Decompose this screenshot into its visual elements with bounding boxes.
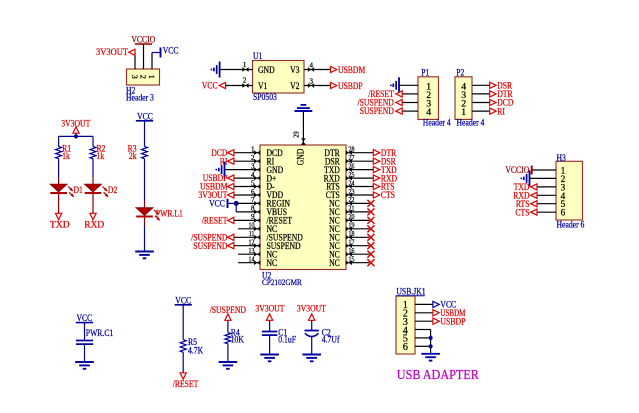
svg-text:RI: RI <box>497 106 505 116</box>
svg-text:4: 4 <box>426 107 431 118</box>
svg-text:10K: 10K <box>231 334 245 344</box>
svg-text:NC: NC <box>267 258 278 268</box>
svg-text:RXD: RXD <box>84 221 104 231</box>
svg-text:3V3OUT: 3V3OUT <box>297 303 326 313</box>
svg-text:USBDM: USBDM <box>338 65 365 75</box>
svg-text:VCC: VCC <box>77 313 93 323</box>
svg-text:/RESET: /RESET <box>202 216 228 226</box>
svg-text:2: 2 <box>243 77 247 85</box>
svg-text:1: 1 <box>461 107 466 118</box>
svg-text:SUSPEND: SUSPEND <box>193 241 228 251</box>
svg-text:GND: GND <box>258 65 275 75</box>
svg-text:3: 3 <box>130 75 139 79</box>
svg-text:2: 2 <box>139 75 148 79</box>
svg-text:VCC: VCC <box>137 111 153 121</box>
svg-text:3: 3 <box>310 77 314 85</box>
svg-text:USBDP: USBDP <box>440 316 465 326</box>
svg-text:6: 6 <box>561 209 566 219</box>
svg-text:1: 1 <box>243 61 247 69</box>
svg-text:VCC: VCC <box>209 198 225 208</box>
svg-text:Header 6: Header 6 <box>557 220 585 230</box>
svg-text:/RESET: /RESET <box>173 379 199 389</box>
svg-text:USB.JK1: USB.JK1 <box>396 287 425 297</box>
svg-text:GND: GND <box>295 148 305 165</box>
svg-text:TXD: TXD <box>50 221 70 231</box>
svg-text:CTS: CTS <box>515 207 529 217</box>
svg-text:VCC: VCC <box>163 46 179 56</box>
svg-text:CP2102GMR: CP2102GMR <box>262 277 302 287</box>
svg-text:29: 29 <box>291 131 300 138</box>
svg-text:SUSPEND: SUSPEND <box>360 106 395 116</box>
svg-text:V3: V3 <box>290 65 300 75</box>
svg-text:Header 4: Header 4 <box>423 117 451 127</box>
svg-text:3V3OUT: 3V3OUT <box>255 303 284 313</box>
svg-text:D2: D2 <box>108 185 117 195</box>
svg-text:NC: NC <box>329 258 340 268</box>
svg-text:1k: 1k <box>97 151 105 161</box>
svg-text:VCC: VCC <box>175 295 191 305</box>
svg-text:PWR.C1: PWR.C1 <box>86 328 114 338</box>
svg-text:D1: D1 <box>74 185 83 195</box>
svg-text:USB ADAPTER: USB ADAPTER <box>397 368 480 383</box>
svg-text:VCC: VCC <box>202 81 218 91</box>
svg-text:4.7Uf: 4.7Uf <box>322 334 340 344</box>
svg-text:H3: H3 <box>557 153 567 163</box>
svg-text:SP0503: SP0503 <box>253 92 277 102</box>
svg-text:1: 1 <box>147 75 156 79</box>
svg-text:Header 4: Header 4 <box>457 117 485 127</box>
svg-text:2k: 2k <box>129 151 137 161</box>
svg-text:0.1uF: 0.1uF <box>278 334 296 344</box>
svg-text:RI: RI <box>220 156 228 166</box>
svg-text:6: 6 <box>403 342 408 353</box>
svg-text:CTS: CTS <box>381 190 395 200</box>
svg-text:USBDP: USBDP <box>338 81 363 91</box>
svg-text:V1: V1 <box>258 81 267 91</box>
svg-text:Header 3: Header 3 <box>126 93 154 103</box>
svg-text:P2: P2 <box>456 68 464 78</box>
svg-text:3V3OUT: 3V3OUT <box>96 47 128 57</box>
svg-text:U1: U1 <box>253 51 262 61</box>
svg-text:V2: V2 <box>290 81 299 91</box>
svg-text:4.7K: 4.7K <box>188 345 204 355</box>
svg-text:VCCIO: VCCIO <box>131 34 155 44</box>
svg-text:VCCIO: VCCIO <box>505 165 529 175</box>
svg-text:P1: P1 <box>421 68 429 78</box>
svg-text:4: 4 <box>310 61 314 69</box>
svg-text:PWR.L1: PWR.L1 <box>156 208 183 218</box>
svg-text:1k: 1k <box>62 151 70 161</box>
